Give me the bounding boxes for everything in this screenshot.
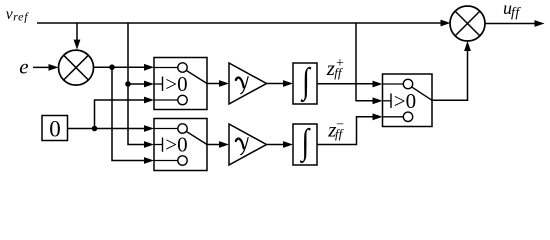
wire: u_ff output [485, 20, 545, 27]
node B: junction on v_ref drop feeding SW1 control [125, 81, 131, 87]
label z_ff+ [326, 56, 344, 80]
wire: branch from node C up to switch SW1 bottom input [95, 97, 155, 129]
integrator I2 [293, 121, 317, 165]
gain G2 (gamma) [229, 124, 267, 165]
wire: U1 output to switch SW1 top input [94, 64, 155, 71]
svg-text:−: − [336, 118, 344, 133]
switch SW2 [154, 119, 207, 171]
wire: G2 output to integrator I2 [267, 141, 294, 148]
svg-text:>0: >0 [165, 72, 187, 96]
wire: G1 output to integrator I1 [267, 80, 294, 87]
wire: v_ref drop to switch SW3 control input [356, 23, 383, 104]
gain G1 (gamma) [229, 63, 267, 104]
wire: 0 output to switch SW2 top input [68, 125, 154, 132]
label z_ff- [327, 118, 344, 142]
wire: SW1 output to gain G1 [207, 80, 229, 87]
wire: v_ref top line into multiplier U2 [37, 20, 451, 27]
wire: SW2 output to gain G2 [207, 141, 229, 148]
svg-text:+: + [336, 56, 344, 71]
switch SW1 [154, 58, 207, 110]
svg-text:>0: >0 [394, 89, 416, 113]
multiplier U2 (v_ref x z) [450, 6, 485, 41]
switch SW3 [383, 74, 433, 127]
svg-text:v: v [6, 6, 13, 23]
node A: junction on U1 output [109, 64, 115, 70]
node C: junction on 0 line [92, 126, 98, 132]
integrator I1 [293, 60, 317, 104]
wire: z_ff+ line to switch SW3 top input [317, 81, 383, 88]
wire: v_ref drop to switch SW2 control input [128, 23, 154, 148]
constant block 0 [42, 116, 68, 142]
svg-text:e: e [19, 55, 28, 79]
wire: branch to switch SW1 control input [128, 81, 154, 88]
wire: v_ref drop into multiplier U1 [74, 23, 81, 50]
wire: z_ff- line to switch SW3 bottom input [317, 113, 383, 144]
wire: e input into multiplier U1 [33, 64, 59, 71]
multiplier U1 (e x v_ref) [59, 50, 94, 85]
label v_ref [6, 6, 29, 24]
wire: SW3 output up into multiplier U2 [432, 41, 471, 100]
svg-text:0: 0 [49, 116, 61, 141]
svg-text:ref: ref [13, 10, 29, 24]
label u_ff [503, 0, 521, 21]
svg-text:>0: >0 [165, 133, 187, 157]
wire: branch from node A down to switch SW2 bottom input [112, 67, 154, 164]
